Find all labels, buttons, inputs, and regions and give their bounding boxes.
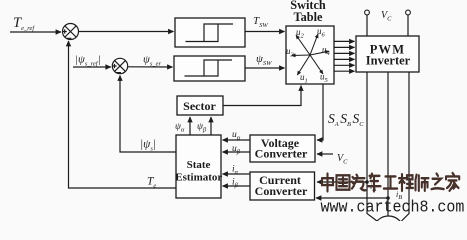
svg-text:VC: VC	[381, 10, 392, 23]
svg-text:ψα: ψα	[175, 122, 185, 134]
svg-text:Inverter: Inverter	[366, 54, 411, 68]
svg-text:Converter: Converter	[255, 146, 308, 160]
svg-text:www.cartech8.com: www.cartech8.com	[321, 198, 465, 217]
svg-text:Estimator: Estimator	[175, 171, 222, 183]
svg-text:|ψs_ref|: |ψs_ref|	[75, 54, 101, 68]
svg-text:ψSW: ψSW	[256, 53, 272, 67]
svg-text:iα: iα	[232, 165, 239, 177]
svg-text:iβ: iβ	[232, 178, 239, 190]
svg-text:Converter: Converter	[255, 184, 308, 198]
svg-text:Sector: Sector	[183, 99, 216, 113]
svg-text:VC: VC	[337, 153, 348, 166]
svg-text:Te_ref: Te_ref	[13, 15, 35, 32]
svg-text:State: State	[187, 159, 211, 171]
svg-text:uβ: uβ	[232, 144, 241, 156]
svg-text:ψs_er: ψs_er	[143, 54, 162, 68]
svg-text:ψβ: ψβ	[197, 122, 207, 134]
svg-text:Te: Te	[147, 176, 156, 190]
svg-text:SASBSC: SASBSC	[328, 111, 364, 128]
svg-text:TSW: TSW	[253, 15, 268, 29]
svg-text:Table: Table	[294, 10, 323, 24]
svg-text:uα: uα	[232, 130, 241, 142]
svg-text:|ψs|: |ψs|	[140, 138, 156, 152]
